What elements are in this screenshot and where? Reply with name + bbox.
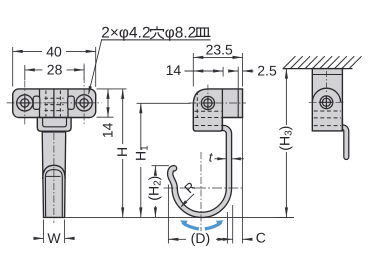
svg-text:φ8.2: φ8.2 <box>165 25 196 42</box>
svg-text:2×φ4.2: 2×φ4.2 <box>101 25 151 42</box>
side view: plate and pivot arm <box>193 89 242 131</box>
dimension (H2) <box>145 166 169 218</box>
svg-text:40: 40 <box>46 43 62 59</box>
front view: mounting plate <box>13 89 96 118</box>
svg-text:28: 28 <box>47 62 63 78</box>
side view: screw centerline <box>189 85 247 104</box>
side view: hook centerlines <box>164 152 244 231</box>
dimension (D) <box>168 185 227 246</box>
front view: left screw hole <box>17 95 33 111</box>
dimension 40 <box>13 43 96 86</box>
radius R label <box>180 179 198 208</box>
dimension (H3) <box>275 69 294 218</box>
side view: hook rod <box>170 128 229 215</box>
svg-text:W: W <box>47 230 61 246</box>
ceiling view: hook rod folded <box>339 127 346 157</box>
side view: arm edge redraw <box>221 118 223 131</box>
dimension 2.5 <box>228 63 277 89</box>
front view: left pivot tab <box>33 96 40 109</box>
ceiling view: centerlines <box>309 71 346 102</box>
front view: shaft centerline <box>53 133 55 223</box>
front view: lower bracket <box>37 118 71 132</box>
svg-text:2.5: 2.5 <box>257 63 277 79</box>
side view: hidden lines in arm <box>195 92 222 126</box>
ceiling view: screw <box>320 96 333 109</box>
hole note text 2xphi4.2 ana phi8.2 sara <box>101 25 210 42</box>
svg-text:C: C <box>256 230 266 246</box>
front view: hook shaft <box>42 132 65 218</box>
svg-text:(H3): (H3) <box>276 126 294 151</box>
svg-text:H: H <box>114 147 130 157</box>
ceiling view: plate <box>312 69 342 131</box>
dimension C <box>223 118 266 246</box>
ceiling view: hidden lines <box>314 111 341 126</box>
front view: pivot housing edges <box>40 89 69 117</box>
front view: right pivot tab <box>68 96 75 109</box>
blue swivel arrows <box>180 220 224 229</box>
dimension 28 <box>25 62 84 80</box>
dimension 14 (side) <box>166 62 223 78</box>
front view: hook tip seen from front <box>43 165 65 216</box>
dimension 14 plate height <box>97 89 127 138</box>
dimension W <box>34 220 75 247</box>
side view: screw <box>201 96 214 109</box>
svg-text:(H2): (H2) <box>145 176 163 201</box>
svg-text:14: 14 <box>99 122 115 138</box>
ceiling view: plate right edge redraw <box>341 118 343 131</box>
bottom extension line <box>65 216 294 218</box>
dimension 23.5 <box>193 41 242 86</box>
ceiling hatch <box>283 56 362 68</box>
front view: right screw hole <box>76 95 92 111</box>
front view: hole centerlines <box>7 64 102 125</box>
svg-text:(D): (D) <box>191 230 210 246</box>
dimension H <box>114 89 130 218</box>
dimension H1 <box>133 103 191 217</box>
dimension t <box>209 150 244 165</box>
front view: hidden lines inside housing <box>45 91 64 117</box>
svg-text:14: 14 <box>166 62 182 78</box>
hole note leader <box>88 40 210 95</box>
svg-text:23.5: 23.5 <box>206 41 233 57</box>
